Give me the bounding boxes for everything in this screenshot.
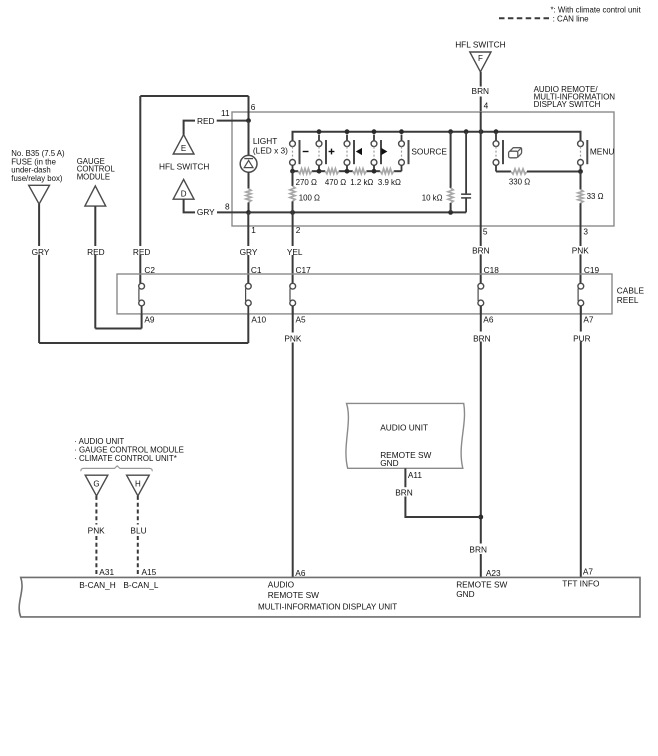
label BRN	[469, 545, 487, 555]
resistor LED series	[246, 189, 251, 203]
wire junction to 33ohm	[580, 172, 582, 190]
svg-text:B-CAN_H: B-CAN_H	[79, 580, 115, 590]
svg-text:8: 8	[225, 201, 230, 211]
label 470ohm	[325, 178, 346, 187]
svg-text:MENU: MENU	[590, 146, 614, 156]
svg-text:B-CAN_L: B-CAN_L	[123, 580, 158, 590]
svg-text:RED: RED	[87, 247, 105, 257]
label B-CAN_L	[123, 580, 158, 590]
pin 1 wire (GRY)	[247, 212, 249, 283]
svg-text:BLU: BLU	[130, 525, 146, 535]
junction rail hook switch	[494, 129, 499, 134]
wire LED to resistor	[248, 172, 250, 188]
switch hook (off-hook)	[493, 132, 503, 172]
label AUDIO UNIT	[380, 423, 428, 433]
wire A5 to A6 (PNK)	[292, 306, 294, 577]
audio remote/multi-information display switch box	[232, 112, 614, 226]
svg-text:BRN: BRN	[472, 246, 490, 256]
connector C18/A6	[478, 283, 484, 314]
label C18	[484, 265, 500, 275]
resistor 470ohm	[325, 169, 339, 174]
label MENU	[590, 146, 614, 156]
junction menu/330ohm	[578, 169, 583, 174]
svg-text:GRY: GRY	[32, 247, 50, 257]
svg-text:A9: A9	[144, 314, 155, 324]
svg-text:A10: A10	[251, 314, 266, 324]
wire bottom rail	[248, 211, 466, 213]
wire rail to 10kohm	[450, 132, 452, 188]
svg-text:PNK: PNK	[88, 525, 106, 535]
label BRN	[395, 488, 413, 498]
label A7	[583, 314, 594, 324]
pin 3 label	[583, 227, 588, 237]
label 3.9kohm	[378, 178, 401, 187]
junction pin6/pin11	[246, 118, 251, 123]
label AUDIO REMOTE SW	[268, 580, 319, 600]
switch seek-right	[371, 135, 387, 172]
wire E to pin 11 (RED)	[184, 121, 249, 135]
svg-text:BRN: BRN	[395, 488, 413, 498]
svg-text:A11: A11	[408, 470, 423, 480]
wire pin6 junction to LED	[248, 121, 250, 156]
label A23	[486, 568, 501, 578]
label PNK	[572, 246, 590, 256]
junction LED/bottom rail	[246, 210, 251, 215]
wire A11 (BRN)	[405, 468, 480, 517]
svg-text:GND: GND	[380, 458, 398, 468]
junction ladder sw1	[290, 169, 295, 174]
svg-text:C18: C18	[484, 265, 500, 275]
pin 2 wire (YEL)	[292, 212, 294, 283]
label A15	[142, 567, 157, 577]
label A5	[296, 314, 307, 324]
label BRN	[472, 86, 490, 96]
label A6	[483, 314, 494, 324]
svg-text:REEL: REEL	[617, 295, 639, 305]
cable reel box	[117, 274, 612, 314]
label YEL	[287, 247, 303, 257]
pin 1 label	[251, 225, 256, 235]
wire 10kohm to rail	[450, 203, 452, 212]
svg-text:(LED x 3): (LED x 3)	[253, 145, 288, 155]
wire pin4 to pin5	[480, 112, 482, 226]
label BRN	[472, 246, 490, 256]
label PUR	[573, 334, 591, 344]
junction 10kohm bottom	[448, 210, 453, 215]
svg-text:A6: A6	[483, 314, 494, 324]
label HFL SWITCH	[159, 161, 209, 171]
svg-text:RED: RED	[133, 247, 151, 257]
svg-text:470 Ω: 470 Ω	[325, 178, 346, 187]
audio unit box (partial)	[346, 403, 465, 468]
connector triangle D	[173, 179, 194, 199]
box title	[534, 85, 616, 109]
wire F to pin 4 (BRN)	[480, 72, 482, 112]
svg-text:BRN: BRN	[473, 334, 491, 344]
legend CAN line dashed sample	[499, 14, 589, 23]
label C19	[584, 265, 600, 275]
resistor 3.9kohm	[380, 169, 394, 174]
wire H CAN (BLU) dashed	[137, 496, 139, 578]
svg-text:AUDIO UNIT: AUDIO UNIT	[380, 423, 428, 433]
svg-text:10 kΩ: 10 kΩ	[422, 194, 443, 203]
svg-text:C1: C1	[251, 265, 262, 275]
label RED	[87, 247, 105, 257]
svg-text:TFT INFO: TFT INFO	[562, 578, 600, 588]
wire RED column down to C2	[139, 96, 141, 283]
svg-text:BRN: BRN	[469, 545, 487, 555]
label 10kohm	[422, 194, 443, 203]
label PNK	[88, 525, 106, 535]
light LED x3 lamp	[240, 155, 257, 172]
label PNK	[284, 334, 302, 344]
pin 2 label	[296, 225, 301, 235]
junction rail cap	[464, 129, 469, 134]
svg-text:RED: RED	[197, 116, 215, 126]
label 100ohm	[299, 194, 320, 203]
svg-text:REMOTE SW: REMOTE SW	[268, 590, 319, 600]
switch plus (vol+)	[316, 135, 334, 172]
junction rail sw5	[399, 129, 404, 134]
junction ladder sw3	[345, 169, 350, 174]
svg-text:A7: A7	[583, 567, 594, 577]
bracket over G and H	[81, 466, 153, 471]
label BLU	[130, 525, 146, 535]
svg-text:330 Ω: 330 Ω	[509, 177, 530, 186]
fuse No. B35 7.5A	[11, 149, 65, 204]
connector triangle H	[127, 475, 150, 496]
junction rail pin4	[479, 129, 484, 134]
wire resistor to bottom rail	[248, 202, 250, 212]
svg-text:MULTI-INFORMATION DISPLAY UNIT: MULTI-INFORMATION DISPLAY UNIT	[258, 603, 397, 612]
svg-text:33 Ω: 33 Ω	[587, 192, 604, 201]
resistor 100ohm	[290, 186, 295, 201]
connector triangle G	[85, 475, 108, 496]
svg-text:GRY: GRY	[197, 207, 215, 217]
label TFT INFO	[562, 578, 600, 588]
resistor 1.2kohm	[353, 169, 367, 174]
svg-text:11: 11	[221, 108, 230, 118]
resistor 330ohm	[511, 169, 527, 174]
svg-text:3.9 kΩ: 3.9 kΩ	[378, 178, 401, 187]
junction BRN/A11	[478, 515, 483, 520]
resistor 33ohm	[578, 190, 583, 204]
svg-text:*: With climate control unit: *: With climate control unit	[551, 5, 642, 14]
junction rail sw4	[372, 129, 377, 134]
label LIGHT (LED x 3)	[253, 136, 288, 155]
wire hook to 330ohm	[496, 171, 511, 173]
wire 100ohm to rail	[292, 201, 294, 212]
label A11	[408, 470, 423, 480]
pin 5 wire (BRN)	[480, 226, 482, 283]
svg-text:CABLE: CABLE	[617, 285, 645, 295]
switch minus (vol-)	[290, 135, 309, 172]
label RED	[197, 116, 215, 126]
wire ladder row	[293, 170, 402, 172]
svg-text:SOURCE: SOURCE	[411, 147, 447, 157]
svg-text:C2: C2	[144, 265, 155, 275]
label RED (C2 wire)	[133, 247, 151, 257]
label A10	[251, 314, 266, 324]
svg-text:YEL: YEL	[287, 247, 303, 257]
svg-text:: CAN line: : CAN line	[553, 14, 590, 23]
label A6	[295, 568, 306, 578]
junction rail 10k	[448, 129, 453, 134]
label 330ohm	[509, 177, 530, 186]
svg-text:D: D	[181, 190, 187, 199]
connector triangle E	[173, 135, 194, 154]
svg-text:A7: A7	[583, 314, 594, 324]
pin 6 label	[251, 102, 256, 112]
svg-text:A31: A31	[99, 567, 114, 577]
label 1.2kohm	[350, 178, 373, 187]
junction ladder sw4	[372, 169, 377, 174]
connector triangle F (HFL SWITCH)	[455, 39, 505, 72]
label REMOTE SW GND	[456, 580, 507, 600]
icon phone	[509, 148, 522, 158]
legend note: with climate control unit	[551, 5, 642, 14]
svg-text:4: 4	[484, 100, 489, 110]
svg-text:1: 1	[251, 225, 256, 235]
svg-text:MODULE: MODULE	[77, 172, 110, 181]
svg-text:GRY: GRY	[240, 247, 258, 257]
label GRY	[32, 247, 50, 257]
svg-text:AUDIO: AUDIO	[268, 580, 295, 590]
capacitor C	[461, 132, 471, 213]
wire A6 to A23 (BRN)	[480, 306, 482, 577]
connector C17/A5	[290, 283, 296, 314]
switch seek-left	[344, 135, 362, 172]
switch SOURCE	[399, 135, 448, 172]
wire 330ohm to menu junction	[527, 171, 581, 173]
label A9	[144, 314, 155, 324]
svg-text:A6: A6	[295, 568, 306, 578]
label 270ohm	[296, 178, 317, 187]
junction ladder sw2	[317, 169, 322, 174]
svg-text:E: E	[181, 144, 186, 153]
connector C2/A9	[139, 283, 145, 314]
svg-text:PUR: PUR	[573, 334, 591, 344]
label source units list	[74, 437, 184, 463]
svg-text:DISPLAY SWITCH: DISPLAY SWITCH	[534, 100, 601, 109]
svg-text:· CLIMATE CONTROL UNIT*: · CLIMATE CONTROL UNIT*	[74, 454, 177, 463]
svg-text:fuse/relay box): fuse/relay box)	[11, 174, 63, 183]
wire D to pin 8 (GRY)	[184, 199, 249, 212]
pin 11 label	[221, 108, 230, 118]
wire sw1 to 100ohm	[292, 171, 294, 186]
svg-text:1.2 kΩ: 1.2 kΩ	[350, 178, 373, 187]
junction 100ohm bottom	[290, 210, 295, 215]
wire pin6 loop from RED column	[140, 95, 248, 97]
svg-text:BRN: BRN	[472, 86, 490, 96]
wire 33ohm to pin 3	[580, 203, 582, 226]
resistor 270ohm	[298, 169, 312, 174]
svg-text:HFL SWITCH: HFL SWITCH	[159, 161, 209, 171]
label 33ohm	[587, 192, 604, 201]
label C1	[251, 265, 262, 275]
svg-text:6: 6	[251, 102, 256, 112]
pin 4 label	[484, 100, 489, 110]
wire top rail	[293, 132, 581, 144]
label A7	[583, 567, 594, 577]
wire A7 to A7 (PUR)	[580, 306, 582, 577]
connector C19/A7	[578, 283, 584, 314]
label GRY	[197, 207, 215, 217]
svg-text:GND: GND	[456, 589, 474, 599]
label REMOTE SW GND	[380, 450, 431, 468]
connector C1/A10	[245, 283, 251, 314]
svg-text:F: F	[478, 54, 483, 63]
svg-text:100 Ω: 100 Ω	[299, 194, 320, 203]
junction rail sw2	[317, 129, 322, 134]
svg-text:C19: C19	[584, 265, 600, 275]
svg-text:A23: A23	[486, 568, 501, 578]
resistor 10kohm	[448, 188, 453, 203]
svg-text:HFL SWITCH: HFL SWITCH	[455, 39, 505, 49]
junction rail sw3	[345, 129, 350, 134]
pin 5 label	[483, 227, 488, 237]
label A31	[99, 567, 114, 577]
pin 3 wire (PNK)	[580, 226, 582, 283]
svg-text:PNK: PNK	[572, 246, 590, 256]
svg-text:270 Ω: 270 Ω	[296, 178, 317, 187]
svg-text:A5: A5	[296, 314, 307, 324]
wire G CAN (PNK) dashed	[95, 496, 97, 578]
label CABLE REEL	[617, 285, 645, 305]
svg-text:H: H	[135, 479, 141, 488]
label C17	[296, 265, 312, 275]
svg-text:C17: C17	[296, 265, 312, 275]
label C2	[144, 265, 155, 275]
svg-text:A15: A15	[142, 567, 157, 577]
multi-information display unit box	[19, 577, 640, 617]
pin 8 label	[225, 201, 230, 211]
switch MENU	[578, 132, 588, 172]
gauge control module arrow	[77, 157, 116, 206]
wire fuse GRY to A10	[39, 204, 248, 343]
svg-text:G: G	[93, 479, 99, 488]
wire pin6 vertical into box	[248, 96, 250, 121]
label GRY	[240, 247, 258, 257]
wire gauge RED to A9	[95, 206, 141, 328]
label MULTI-INFORMATION DISPLAY UNIT	[258, 603, 397, 612]
svg-text:3: 3	[583, 227, 588, 237]
label BRN	[473, 334, 491, 344]
svg-text:PNK: PNK	[284, 334, 302, 344]
svg-text:5: 5	[483, 227, 488, 237]
svg-text:2: 2	[296, 225, 301, 235]
label B-CAN_H	[79, 580, 115, 590]
svg-text:REMOTE SW: REMOTE SW	[456, 580, 507, 590]
